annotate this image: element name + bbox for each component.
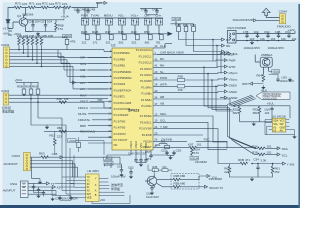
wire bottom right rail: [227, 164, 283, 167]
ground bottom right of U5: [292, 135, 296, 139]
svg-text:P1.0/BT1: P1.0/BT1: [114, 95, 126, 99]
keypad output arrow: [167, 32, 172, 36]
resistor R51: [156, 35, 164, 45]
svg-text:103: 103: [22, 2, 27, 6]
svg-text:C4B: C4B: [89, 7, 95, 11]
ground bottom caps: [50, 197, 54, 201]
svg-text:159: 159: [178, 88, 183, 92]
capacitor C65: [269, 74, 294, 83]
resistor RA4: [31, 38, 34, 46]
net YT: [46, 182, 74, 186]
wires CON3 rows: [30, 157, 77, 180]
svg-text:Y SW: Y SW: [287, 162, 295, 166]
svg-text:FMCLK: FMCLK: [78, 106, 88, 110]
ground IC bypass caps: [136, 162, 146, 164]
connector CON4: [280, 14, 286, 24]
svg-text:R4D: R4D: [57, 97, 62, 101]
wire bottom bus: [52, 187, 71, 200]
net WCUR.TV: [205, 185, 224, 190]
svg-text:WCUR.TV: WCUR.TV: [209, 186, 223, 190]
svg-text:FSCIN: FSCIN: [144, 139, 152, 143]
svg-text:P1.0/PB0: P1.0/PB0: [114, 57, 126, 61]
button VOL+: [131, 19, 138, 26]
svg-text:P1.2/SCL2: P1.2/SCL2: [139, 61, 153, 65]
svg-text:P2.6/KB: P2.6/KB: [142, 133, 152, 137]
svg-text:C3B: C3B: [55, 197, 61, 201]
wire Y SW pin row: [157, 129, 227, 164]
svg-text:681: 681: [145, 40, 150, 44]
svg-text:101: 101: [267, 150, 272, 154]
junction dots CON2 fan staircase: [18, 49, 42, 67]
svg-text:SP623: SP623: [128, 109, 139, 113]
+5UA rail above U9: [105, 164, 132, 170]
svg-text:P1.1/SCL1: P1.1/SCL1: [139, 54, 153, 58]
labels cap bank: [243, 30, 297, 41]
resistor R33: [253, 106, 261, 115]
svg-text:CON3: CON3: [12, 154, 21, 158]
svg-text:R59: R59: [25, 84, 31, 88]
resistor R49: [131, 30, 139, 44]
svg-text:FMDATA: FMDATA: [78, 118, 90, 122]
wires U9 right: [102, 179, 124, 196]
svg-text:521: 521: [132, 40, 137, 44]
svg-text:CH-: CH-: [144, 14, 149, 18]
svg-text:103: 103: [49, 2, 54, 6]
resistor R3B inside dashed: [173, 174, 186, 181]
resistor R39: [190, 23, 196, 32]
svg-text:VOL-: VOL-: [118, 14, 125, 18]
resistor R59b on WTR row: [177, 85, 184, 93]
svg-text:+5UA: +5UA: [104, 157, 112, 161]
svg-text:13: 13: [108, 106, 111, 110]
net arrows right column: [224, 52, 238, 100]
svg-text:104: 104: [264, 111, 269, 115]
svg-text:561: 561: [119, 40, 124, 44]
capacitor C57: [40, 19, 52, 27]
resistor R2H: [191, 148, 194, 156]
svg-text:+5U: +5U: [100, 198, 106, 202]
svg-text:BRP: BRP: [80, 124, 86, 128]
vertical bus right edge pair: [227, 106, 229, 138]
svg-text:17: 17: [108, 129, 111, 133]
resistor R36 on PWR row: [177, 75, 184, 82]
net RU: [222, 38, 231, 42]
net arrow CON3 row1: [60, 156, 63, 159]
wire row RB0 long: [44, 130, 96, 132]
banner BLK block: [256, 88, 290, 100]
svg-text:10k: 10k: [260, 37, 265, 41]
svg-text:C61: C61: [117, 164, 123, 168]
svg-text:P1.3/SO4: P1.3/SO4: [140, 67, 152, 71]
wire +5UL rail eeprom: [231, 106, 290, 118]
ground CN7 caps: [34, 190, 44, 197]
wires dashed area: [157, 176, 207, 187]
resistor R32b box above Q7: [162, 166, 168, 171]
wire SDA pin row: [157, 116, 227, 142]
resistor R62: [224, 166, 231, 174]
svg-text:104: 104: [35, 19, 40, 23]
wire R2B row: [148, 165, 172, 175]
connector CN7: [20, 181, 28, 197]
svg-text:R39: R39: [190, 23, 196, 27]
capacitor C63: [266, 34, 269, 39]
resistor RA6: [40, 38, 43, 46]
svg-text:P1.0/BT/TACH: P1.0/BT/TACH: [114, 88, 132, 92]
keypad pull-down resistor row labels: [17, 34, 53, 38]
U9 left pin stubs: [82, 177, 85, 197]
capacitor C52: [161, 149, 169, 156]
diode D6: [6, 17, 10, 26]
capacitor C3B: [277, 34, 280, 39]
svg-text:2SC1B0M: 2SC1B0M: [195, 160, 207, 164]
junction dots resnet rails: [203, 39, 218, 87]
svg-text:PWR: PWR: [160, 76, 168, 80]
svg-text:RH: RH: [160, 64, 164, 68]
svg-text:473: 473: [58, 27, 63, 31]
svg-text:C63: C63: [264, 30, 270, 34]
svg-text:GND0: GND0: [229, 90, 238, 94]
ground under C61: [119, 173, 123, 177]
resistor R73: [14, 6, 22, 9]
svg-text:P1.3/T9I0: P1.3/T9I0: [114, 119, 126, 123]
connector CON1 IR receiver: [3, 93, 9, 105]
diagonal bundle to banner: [227, 95, 256, 107]
labels R63 C4B: [39, 152, 57, 157]
svg-text:CN/H: CN/H: [10, 182, 17, 186]
svg-text:SCL: SCL: [282, 153, 288, 157]
IC bottom pin names vertical: [129, 141, 148, 149]
capacitor C61: [111, 164, 126, 178]
wire top resistor chain: [8, 8, 96, 18]
svg-text:221: 221: [82, 40, 87, 44]
net +5UL bottom: [228, 52, 238, 56]
capacitor C60: [146, 186, 159, 199]
svg-text:SL: SL: [160, 70, 164, 74]
wire pin27 K07 row: [157, 147, 256, 149]
resistor R71: [28, 6, 36, 9]
labels X01 501: [155, 140, 166, 148]
wire pin1 CAR BACK VIEW: [157, 54, 228, 56]
connector CON3: [24, 152, 31, 170]
svg-text:CLK: CLK: [229, 52, 235, 56]
svg-text:+5UL: +5UL: [272, 70, 280, 74]
svg-text:VOL+: VOL+: [131, 14, 139, 18]
wires buttons to mid bus: [81, 25, 167, 34]
capacitor C62: [128, 165, 134, 174]
svg-text:P1.2/SNH2T: P1.2/SNH2T: [114, 113, 129, 117]
svg-text:CN3/KB: CN3/KB: [161, 138, 172, 142]
svg-text:R73: R73: [55, 2, 61, 6]
svg-text:P1.0/AD3: P1.0/AD3: [114, 82, 126, 86]
resistor R34: [252, 144, 272, 149]
svg-text:R47: R47: [105, 30, 111, 34]
svg-text:P1.0/SCL/AD8: P1.0/SCL/AD8: [114, 101, 132, 105]
wire U9 bottom: [92, 195, 130, 204]
svg-text:C49 C50 C51: C49 C50 C51: [128, 152, 147, 156]
svg-text:P1.0/PWM0/02: P1.0/PWM0/02: [114, 76, 133, 80]
resistor R50: [144, 30, 152, 44]
IC right pin stubs: [153, 48, 157, 148]
capacitor C57b: [145, 150, 153, 161]
resistor R59: [29, 89, 33, 94]
wires R58-60 down to CON1 rows: [24, 94, 38, 102]
svg-text:VEE: VEE: [87, 196, 92, 199]
wire CN3/KB row: [157, 141, 227, 148]
svg-text:SDA: SDA: [160, 112, 166, 116]
label caps: [74, 7, 96, 11]
wire SCL pin row: [157, 122, 227, 149]
capacitor C4B2: [86, 9, 89, 14]
ground under C62: [129, 175, 133, 179]
svg-text:152: 152: [274, 170, 279, 174]
resistor R47: [105, 30, 113, 44]
net SCL: [277, 153, 288, 157]
resistor R32: [233, 106, 241, 115]
ground on stepped wire: [45, 125, 49, 129]
svg-text:CAR BACK VIEW: CAR BACK VIEW: [160, 51, 184, 55]
svg-text:NC: NC: [114, 143, 118, 147]
svg-text:FMCE: FMCE: [80, 100, 89, 104]
capacitor C34: [253, 157, 266, 170]
svg-text:14: 14: [108, 112, 111, 116]
svg-text:X01: X01: [155, 143, 161, 147]
junction dots keypad bus: [84, 33, 160, 35]
IC U3 SP623 body: [111, 43, 153, 150]
svg-text:RHB: RHB: [81, 30, 87, 34]
wires IC left pins to labels: [88, 57, 108, 143]
wire CLK pin12: [157, 44, 172, 48]
IC left pin stubs: [108, 51, 112, 143]
svg-text:C53: C53: [176, 149, 182, 153]
svg-text:103: 103: [162, 166, 167, 169]
svg-text:+5UA: +5UA: [173, 17, 181, 21]
svg-text:R5B: R5B: [17, 84, 23, 88]
resistor K07: [188, 142, 202, 149]
svg-text:271: 271: [93, 40, 98, 44]
svg-text:P1.7/KOUT: P1.7/KOUT: [114, 138, 128, 142]
resistor RA2: [22, 38, 25, 46]
resistor RA3: [27, 38, 30, 46]
svg-text:103: 103: [64, 97, 69, 101]
wires into U9 from left: [62, 137, 82, 197]
capacitor CN7 c1: [32, 185, 35, 190]
svg-text:10k: 10k: [292, 37, 297, 41]
svg-text:R4B: R4B: [175, 23, 181, 27]
IC left pin numbers: [108, 49, 112, 139]
net A2: [52, 186, 74, 190]
resistor RA5: [36, 38, 39, 46]
IC internal left text column: [114, 51, 133, 147]
svg-text:HSync: HSync: [229, 71, 238, 75]
svg-text:R50: R50: [144, 30, 150, 34]
svg-text:C62: C62: [128, 165, 134, 169]
svg-text:RHB: RHB: [92, 30, 98, 34]
capacitor C66: [264, 107, 273, 115]
svg-text:VSYNC/GND: VSYNC/GND: [263, 97, 277, 100]
svg-text:SCL: SCL: [160, 119, 166, 123]
resistor R75: [54, 6, 62, 9]
wire +5UA rail: [171, 21, 194, 27]
svg-text:104: 104: [73, 197, 78, 201]
svg-text:Q4: Q4: [17, 14, 21, 18]
resistor R6B 471: [238, 158, 250, 165]
svg-text:3.3K: 3.3K: [260, 158, 266, 162]
svg-text:FSC: FSC: [204, 138, 211, 142]
svg-text:P1.6/INT2: P1.6/INT2: [114, 132, 127, 136]
svg-text:A2: A2: [57, 186, 61, 190]
svg-text:R36: R36: [178, 75, 184, 79]
svg-text:AVINPUT: AVINPUT: [3, 188, 16, 192]
resistor 47B under +5UA: [65, 39, 75, 49]
capacitor C4B: [76, 9, 79, 14]
svg-text:C4B: C4B: [52, 152, 58, 156]
net SL: [222, 50, 231, 54]
svg-text:R73: R73: [15, 2, 21, 6]
resistor RA1: [18, 38, 21, 46]
svg-text:101: 101: [267, 144, 272, 148]
svg-text:Y SW: Y SW: [160, 125, 168, 129]
nested corners to right arrows: [157, 54, 230, 108]
resistor R3C inside dashed: [173, 181, 186, 188]
svg-text:CON1: CON1: [1, 89, 10, 93]
transistor 2SB5EA: [255, 55, 272, 75]
svg-text:47B: 47B: [70, 40, 75, 44]
labels on wires: [160, 57, 168, 86]
label +5UA left of IC bottom: [68, 139, 76, 143]
wires CON1 fan: [9, 95, 108, 108]
resistor R4B: [175, 23, 181, 32]
wire Q4 base to +3.3V: [8, 22, 19, 35]
svg-text:PWR: PWR: [229, 59, 237, 63]
wire Q4 emitter rail: [25, 19, 64, 32]
wire power rails: [236, 31, 295, 41]
svg-text:P1.6/Min: P1.6/Min: [141, 98, 152, 102]
wires CON1 stepped down: [31, 99, 66, 143]
svg-text:+5UA: +5UA: [63, 34, 71, 38]
resistor R76: [64, 6, 72, 9]
svg-text:C34: C34: [253, 157, 259, 161]
labels HB VB: [160, 95, 164, 106]
button TV/AV: [92, 19, 99, 26]
ground bus eeprom: [240, 111, 273, 121]
svg-text:HB: HB: [160, 95, 164, 99]
svg-text:PH2369: PH2369: [22, 12, 33, 16]
capacitor C4D above CH+: [152, 7, 159, 13]
svg-text:104: 104: [74, 7, 79, 11]
resistor R52 vertical left of IC: [49, 131, 62, 153]
svg-text:RWT: RWT: [242, 82, 249, 86]
ground right of C65: [288, 77, 292, 81]
svg-text:WTR: WTR: [160, 83, 168, 87]
net RWT left arrow: [242, 82, 263, 86]
wire SDA row: [256, 147, 277, 149]
svg-text:C57: C57: [145, 150, 151, 154]
svg-text:VSS: VSS: [139, 143, 143, 149]
svg-text:C4b: C4b: [141, 7, 147, 11]
svg-text:收遥控器: 收遥控器: [2, 108, 14, 113]
net RH: [222, 44, 231, 48]
IC U5 24C08: [269, 118, 290, 132]
svg-text:PWR: PWR: [81, 14, 89, 18]
junction dots bottom right: [251, 163, 273, 165]
svg-text:R48: R48: [118, 30, 124, 34]
wire +5UA to IC bottom rail: [76, 141, 104, 155]
svg-text:P1.4/SO4: P1.4/SO4: [140, 73, 152, 77]
capacitor C64: [287, 34, 290, 39]
button CH+: [155, 19, 162, 26]
resistor box under +5UA left: [77, 137, 81, 152]
svg-text:682: 682: [233, 111, 238, 115]
svg-text:P1.0/PB2: P1.0/PB2: [114, 64, 126, 68]
svg-text:12V: 12V: [211, 176, 216, 180]
svg-text:MUTE: MUTE: [78, 112, 87, 116]
ground bus C56 C57: [32, 28, 56, 32]
keypad button labels: [81, 14, 162, 18]
svg-text:GNDR: GNDR: [229, 96, 239, 100]
wires under U5: [265, 120, 295, 135]
svg-text:P1.0/PWM0/01: P1.0/PWM0/01: [114, 70, 133, 74]
svg-text:C4b: C4b: [152, 7, 158, 11]
labels R58 R59 R60: [17, 84, 38, 88]
svg-text:+5UA: +5UA: [61, 15, 69, 19]
resistor R48: [118, 30, 126, 44]
svg-text:P2.6/SCL: P2.6/SCL: [140, 120, 152, 124]
svg-text:222: 222: [224, 170, 229, 174]
capacitor C49: [128, 152, 147, 163]
svg-text:682: 682: [253, 111, 258, 115]
labels electrolytic values: [244, 46, 284, 50]
svg-text:10k: 10k: [281, 37, 286, 41]
svg-text:OSC2: OSC2: [134, 141, 138, 149]
svg-text:P1.6/SDA: P1.6/SDA: [140, 114, 152, 118]
svg-text:U3: U3: [111, 43, 115, 47]
wires CON2 fan: [10, 45, 109, 89]
net FMAUDIOFMR with arrow: [233, 18, 257, 22]
svg-text:471: 471: [245, 158, 250, 162]
chinese labels right of U9: [111, 182, 123, 191]
U9 right pin stubs: [99, 179, 102, 196]
dots CON1: [23, 94, 39, 103]
svg-text:R64: R64: [256, 73, 262, 77]
transistor Q4: [19, 18, 27, 26]
svg-text:R3B 680: R3B 680: [174, 174, 186, 178]
svg-text:P1.0/PWM0A: P1.0/PWM0A: [114, 51, 130, 55]
label +5UA bottom left of IC: [104, 157, 112, 161]
wire keypad top bus: [81, 8, 163, 19]
label R2H 473: [194, 147, 200, 154]
ground crystal caps: [167, 154, 174, 156]
svg-text:C64: C64: [285, 30, 291, 34]
svg-text:103: 103: [36, 2, 41, 6]
label row top resistors: [15, 2, 67, 7]
svg-text:R71: R71: [29, 2, 35, 6]
resistor R35: [252, 150, 272, 155]
label +5UA mini: [63, 34, 72, 38]
bottom dark border: [0, 205, 300, 208]
IC internal right text column: [136, 48, 152, 149]
svg-text:10: 10: [108, 99, 111, 103]
svg-text:MENU: MENU: [104, 14, 113, 18]
svg-text:473: 473: [194, 151, 199, 155]
resistor RHB: [81, 30, 89, 44]
label +5UA box top middle: [172, 17, 180, 21]
IC U9 4053: [86, 174, 99, 202]
wire resistor row top rail: [19, 37, 67, 39]
svg-text:CON4: CON4: [279, 9, 288, 13]
svg-text:103: 103: [249, 37, 254, 41]
svg-text:1000uF/25V: 1000uF/25V: [244, 46, 260, 50]
resistor R61: [271, 166, 280, 174]
